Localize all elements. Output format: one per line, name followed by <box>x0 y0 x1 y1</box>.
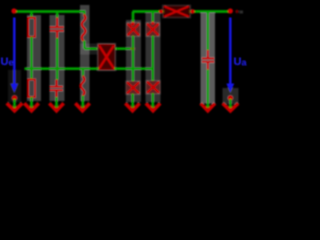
series impedance Z3 box on rail B <box>163 5 191 18</box>
wire: col x133.5 from rail B down to Z1 box <box>132 12 135 24</box>
wire: input ground stem <box>13 99 16 108</box>
voltage arrow U2 (blue) output, line <box>229 18 232 86</box>
wire: col x152.8 from Z4 down through bus end <box>151 36 154 69</box>
wire: col x133 stem to ground <box>131 94 134 108</box>
capacitor C2 lead upper (red) col x57 <box>55 80 58 87</box>
junction dot col x152.8 top of Z4 <box>151 22 155 26</box>
wire: col x152.8 stem to ground <box>151 93 154 108</box>
svg-text:Ue: Ue <box>1 56 14 68</box>
svg-text:Ua: Ua <box>234 56 248 68</box>
mid-rail highlight tube <box>80 44 97 55</box>
load branch highlight tube col x208 <box>201 13 216 104</box>
capacitor C1 lead upper (red) col x57 <box>56 18 59 27</box>
wire: bus from x83 down to L2 <box>82 69 85 77</box>
faint grey mark right of output node <box>240 11 244 14</box>
shunt impedance Z4 box col x152.5 <box>146 23 160 37</box>
branch highlight tube col x84.5 <box>80 5 90 101</box>
ground arrow col x31.5 <box>24 103 38 111</box>
junction dot input node (13.5,11.5) <box>11 8 16 13</box>
junction dot col x133 top of Z1 <box>131 22 135 26</box>
wire: stub from rail A down to R1 col x31.5 <box>30 12 33 19</box>
junction dot rail B left of Z3 <box>159 10 163 14</box>
capacitor C3 plates (red) col x208 <box>202 57 215 59</box>
ground arrow col x230.5 <box>223 103 239 111</box>
junction dot rail B right of Z3 <box>190 9 194 13</box>
wire: mid rail right segment <box>115 47 134 50</box>
wire: top rail B from corner x132.5 to output node <box>133 10 165 13</box>
wire: stub from rail A down to C1 col x57 <box>56 12 59 19</box>
branch highlight tube col x133.5 <box>126 20 141 102</box>
wire: col x31.5 from R1 down to bottom bus <box>30 37 33 69</box>
wire: col x152.5 from rail B down to Z4 box <box>151 12 154 24</box>
ground arrow col x153 <box>146 103 160 111</box>
wire: output ground stem <box>229 99 232 108</box>
junction dot bus at x57 <box>56 67 59 70</box>
wire: vertical drop col x84.4 top stub <box>83 12 86 16</box>
wire: col x31.5 bus to R2 <box>30 69 33 80</box>
capacitor C3 lead lower (red) col x208 <box>207 63 210 71</box>
wire: col x84.4 below inductor to mid rail <box>83 41 86 49</box>
junction dot bus at x31.5 <box>30 67 33 70</box>
capacitor C3 lead upper (red) col x208 <box>207 50 210 58</box>
branch highlight tube col x152.5 <box>146 13 161 102</box>
wire: top rail A (node 1 to series L corner) <box>14 10 86 13</box>
ground arrow col x56.5 <box>49 103 63 111</box>
wire: col x133 from mid rail down through bus <box>132 49 135 69</box>
capacitor C1 lead lower (red) col x57 <box>56 32 59 39</box>
junction dot bus at x83 <box>82 67 85 70</box>
ground arrow col x14.5 <box>7 103 23 111</box>
shunt impedance Z5 box col x152.5 below bus <box>146 81 161 95</box>
faint red mark right of output node <box>235 10 238 13</box>
shunt impedance Z2 box col x133.5 below bus <box>126 81 141 95</box>
resistor R1 (red box outline col x31.5 upper) <box>28 18 35 37</box>
wire: col x152.8 bus to Z5 <box>151 69 154 81</box>
wire: mid rail left segment <box>84 47 97 50</box>
ground arrow col x207.8 <box>201 103 215 111</box>
wire: bottom bus <box>25 67 99 70</box>
wire: col x83 stem to ground <box>81 96 84 108</box>
branch highlight tube col x57 <box>50 15 65 101</box>
ground arrow col x132.5 <box>125 103 139 111</box>
voltage arrow U2 head (blue) <box>226 84 234 94</box>
junction dot above input ground (14.5,98) <box>12 95 18 101</box>
capacitor C1 plates (red) col x57 <box>50 26 65 28</box>
capacitor C2 lead lower (red) col x57 <box>55 91 58 98</box>
junction dot above output ground (230.5,98) <box>228 95 234 101</box>
branch highlight tube col x31.5 <box>27 15 41 101</box>
lattice impedance Z box (big X) between mid rail and bus <box>98 44 116 71</box>
shunt impedance Z1 box col x133.5 <box>126 23 140 37</box>
wire: col x57 bus to C2 <box>56 69 59 80</box>
wire: col x57 below C1 to bus <box>56 38 59 69</box>
wire: col x57 stem to ground <box>55 97 58 108</box>
wire: col x133 bus to Z2 <box>132 69 135 82</box>
input branch faint tube col x14.5 <box>8 70 21 102</box>
capacitor C2 plates (red) col x57 <box>50 86 64 88</box>
inductor L1 (red squiggle col x84.4, rail A to mid rail) <box>82 15 86 41</box>
wire: col x133 from Z1 to mid rail junction <box>132 36 135 49</box>
junction dot output node (230.5,11.5) <box>228 8 233 13</box>
wire: load col x208 from rail B down to C3 <box>206 12 209 51</box>
voltage arrow U1 (blue) input, line <box>13 18 16 86</box>
junction dot mid rail at x133 <box>131 47 135 51</box>
wire: col x208 below C3 to ground <box>206 70 209 108</box>
output branch highlight tube col x230.5 <box>223 88 239 104</box>
resistor R2 (red box outline col x31.5 lower) <box>28 80 35 98</box>
voltage arrow U1 head (blue) <box>10 84 18 94</box>
wire: col x31.5 stem to ground <box>30 97 33 108</box>
inductor L2 (red squiggle col x83, bus to ground) <box>81 76 85 96</box>
ground arrow col x82.5 <box>75 103 89 111</box>
